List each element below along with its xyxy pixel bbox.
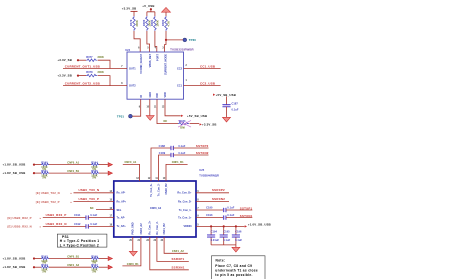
svg-text:CC1_USB: CC1_USB (200, 64, 215, 68)
svg-text:CNF1_A2: CNF1_A2 (67, 263, 79, 267)
svg-text:DIR: DIR (156, 93, 159, 98)
svg-text:SSTXP1: SSTXP1 (240, 206, 253, 210)
svg-text:TP30: TP30 (189, 38, 196, 42)
svg-text:CNF1_B2: CNF1_B2 (163, 223, 166, 235)
svg-text:[E] USB0_RX2_N: [E] USB0_RX2_N (8, 225, 32, 229)
svg-text:200K: 200K (98, 70, 104, 74)
svg-text:Tx_Con_2-: Tx_Con_2- (157, 183, 160, 196)
svg-text:CNF0_B2: CNF0_B2 (165, 183, 168, 195)
svg-text:R381: R381 (150, 19, 154, 26)
svg-text:CNF1_B1: CNF1_B1 (67, 169, 79, 173)
svg-text:0.01uF: 0.01uF (211, 238, 220, 242)
svg-text:4.7K: 4.7K (167, 21, 171, 27)
svg-text:R377: R377 (86, 55, 93, 59)
svg-text:C196: C196 (235, 230, 242, 234)
svg-text:[E] USB0_TX2_P: [E] USB0_TX2_P (36, 200, 60, 204)
svg-text:CNF0_A2: CNF0_A2 (140, 223, 143, 235)
svg-text:TUSB546RNQR: TUSB546RNQR (199, 173, 219, 177)
svg-text:CC2_USB: CC2_USB (200, 82, 215, 86)
svg-text:0.1uF: 0.1uF (223, 238, 230, 242)
svg-text:CNF1_A2: CNF1_A2 (172, 249, 184, 253)
svg-text:CNF0_B1: CNF0_B1 (67, 255, 79, 259)
svg-text:+1.8V_SB_USB: +1.8V_SB_USB (3, 256, 26, 260)
svg-text:C194: C194 (211, 230, 218, 234)
svg-text:Rx_AP+: Rx_AP+ (117, 200, 127, 203)
svg-text:0.1uF: 0.1uF (235, 238, 242, 242)
svg-text:to pin 5 as possible.: to pin 5 as possible. (215, 273, 252, 277)
svg-text:CNF0_A1: CNF0_A1 (67, 161, 79, 165)
svg-text:0.1uF: 0.1uF (232, 108, 239, 112)
svg-text:200K: 200K (98, 55, 104, 59)
svg-text:CURRENT_OUT1_USB: CURRENT_OUT1_USB (65, 64, 100, 68)
svg-text:0.1uF: 0.1uF (90, 213, 97, 217)
svg-text:R380: R380 (142, 19, 146, 26)
svg-text:underneath T1 as close: underneath T1 as close (215, 269, 258, 273)
svg-text:C188: C188 (159, 144, 166, 148)
svg-text:0.1uF: 0.1uF (178, 144, 185, 148)
svg-text:200K: 200K (135, 20, 139, 26)
svg-text:OUT1: OUT1 (129, 67, 136, 70)
svg-text:+3.3V_SB: +3.3V_SB (122, 7, 137, 11)
svg-text:5%: 5% (92, 175, 96, 179)
svg-text:CURRENT_OUT2_USB: CURRENT_OUT2_USB (65, 82, 100, 86)
svg-text:U24: U24 (125, 48, 130, 52)
svg-text:Tx_AP+: Tx_AP+ (117, 225, 127, 228)
svg-text:0.1uF: 0.1uF (90, 222, 97, 226)
svg-text:R382: R382 (161, 19, 165, 26)
svg-text:Rx_Con_2-: Rx_Con_2- (156, 221, 159, 234)
svg-text:C189: C189 (159, 151, 166, 155)
svg-text:+3.3V_SB: +3.3V_SB (202, 123, 217, 127)
svg-text:R542: R542 (41, 254, 48, 258)
svg-text:0.1uF: 0.1uF (178, 151, 185, 155)
svg-text:SSTXN1: SSTXN1 (240, 214, 253, 218)
svg-text:NC: NC (164, 119, 168, 123)
svg-text:+1.8V_SB_USB: +1.8V_SB_USB (3, 265, 26, 269)
svg-text:Rx_Con_D-: Rx_Con_D- (178, 200, 192, 203)
svg-text:Rx_Con_D+: Rx_Con_D+ (177, 192, 192, 195)
svg-text:R544: R544 (91, 160, 98, 164)
svg-text:C187: C187 (232, 102, 239, 106)
svg-text:L = Type-C Position 2: L = Type-C Position 2 (60, 243, 99, 247)
svg-text:Place C7, C8 and C9: Place C7, C8 and C9 (215, 264, 252, 268)
svg-text:Tx_AP-: Tx_AP- (117, 217, 126, 220)
svg-text:Rx_Con_2+: Rx_Con_2+ (149, 220, 152, 234)
svg-text:[E] USB0_RX2_P: [E] USB0_RX2_P (8, 216, 32, 220)
svg-text:PORT: PORT (156, 54, 159, 61)
svg-text:100K: 100K (155, 20, 159, 26)
svg-text:DNI: DNI (180, 125, 185, 129)
svg-text:+3.3V_SB: +3.3V_SB (57, 74, 72, 78)
svg-text:SSRXP2: SSRXP2 (212, 188, 225, 192)
svg-text:SSRXN1: SSRXN1 (172, 266, 185, 270)
svg-text:VDD33: VDD33 (183, 225, 192, 228)
svg-text:R540: R540 (41, 160, 48, 164)
svg-text:SSTXP2: SSTXP2 (196, 144, 209, 148)
svg-text:R378: R378 (86, 70, 93, 74)
svg-text:SEL: SEL (117, 209, 122, 212)
svg-text:GND: GND (149, 92, 152, 98)
svg-text:+5V_SB_USB: +5V_SB_USB (216, 93, 236, 97)
svg-text:CNF0_A1: CNF0_A1 (125, 160, 137, 164)
svg-text:OUT2: OUT2 (129, 85, 136, 88)
svg-text:USB0_TX0_N: USB0_TX0_N (79, 188, 100, 192)
svg-text:SSTXN2: SSTXN2 (196, 151, 209, 155)
svg-text:C191: C191 (74, 213, 81, 217)
svg-text:Note:: Note: (216, 259, 226, 263)
svg-text:CNF0_B1: CNF0_B1 (127, 262, 139, 266)
svg-text:5%: 5% (42, 269, 46, 273)
svg-text:VBUS_DET: VBUS_DET (149, 54, 152, 68)
svg-text:VDD: VDD (164, 92, 167, 97)
svg-text:NC: NC (90, 206, 94, 210)
svg-text:U25: U25 (199, 168, 204, 172)
svg-text:5%: 5% (42, 175, 46, 179)
svg-text:C195: C195 (223, 230, 230, 234)
svg-text:CNF3_A2: CNF3_A2 (150, 207, 162, 210)
svg-text:+1.0V_SB_USB: +1.0V_SB_USB (248, 223, 271, 227)
svg-text:0.1uF: 0.1uF (227, 213, 234, 217)
svg-text:SSRXN2: SSRXN2 (212, 197, 225, 201)
svg-text:[E] USB0_TX2_N: [E] USB0_TX2_N (36, 191, 60, 195)
svg-text:C192: C192 (74, 222, 81, 226)
svg-text:0.1uF: 0.1uF (227, 206, 234, 210)
svg-text:+1.8V_SB_USB: +1.8V_SB_USB (3, 171, 26, 175)
svg-text:R541: R541 (41, 169, 48, 173)
svg-text:PAD_GND: PAD_GND (132, 222, 135, 234)
svg-text:CC2: CC2 (177, 67, 183, 70)
svg-text:R543: R543 (41, 263, 48, 267)
svg-text:USB0_TX0_P: USB0_TX0_P (79, 197, 100, 201)
svg-text:R379: R379 (129, 19, 133, 26)
svg-text:ID: ID (140, 95, 143, 98)
svg-text:R546: R546 (91, 254, 98, 258)
svg-text:CURRENT_MODE: CURRENT_MODE (164, 54, 167, 75)
svg-text:CC1: CC1 (177, 85, 183, 88)
svg-text:SSRXP1: SSRXP1 (172, 257, 185, 261)
svg-text:TP31: TP31 (117, 114, 124, 118)
svg-text:VCONN_FAULT#: VCONN_FAULT# (140, 53, 143, 73)
svg-text:R547: R547 (91, 263, 98, 267)
svg-text:+1.8V_SB_USB: +1.8V_SB_USB (3, 162, 26, 166)
svg-text:USB0_RX0_P: USB0_RX0_P (46, 213, 67, 217)
svg-text:Rx_AP-: Rx_AP- (117, 192, 126, 195)
svg-text:Tx_Con_1+: Tx_Con_1+ (178, 217, 192, 220)
svg-text:5%: 5% (92, 269, 96, 273)
svg-text:CNF1_B1: CNF1_B1 (172, 160, 184, 164)
svg-text:+5V_SB_USB: +5V_SB_USB (187, 114, 207, 118)
svg-text:USB0_RX0_N: USB0_RX0_N (46, 222, 67, 226)
svg-text:Tx_Con_1-: Tx_Con_1- (179, 209, 192, 212)
svg-text:+V_USB: +V_USB (142, 4, 154, 8)
svg-text:C193: C193 (206, 213, 213, 217)
svg-text:+3.3V_SB: +3.3V_SB (57, 58, 72, 62)
svg-text:C190: C190 (206, 206, 213, 210)
svg-text:R545: R545 (91, 169, 98, 173)
svg-text:R433: R433 (179, 119, 186, 123)
svg-text:Tx_Con_2+: Tx_Con_2+ (150, 183, 153, 197)
svg-text:TUSB321IRWBR: TUSB321IRWBR (170, 48, 194, 52)
